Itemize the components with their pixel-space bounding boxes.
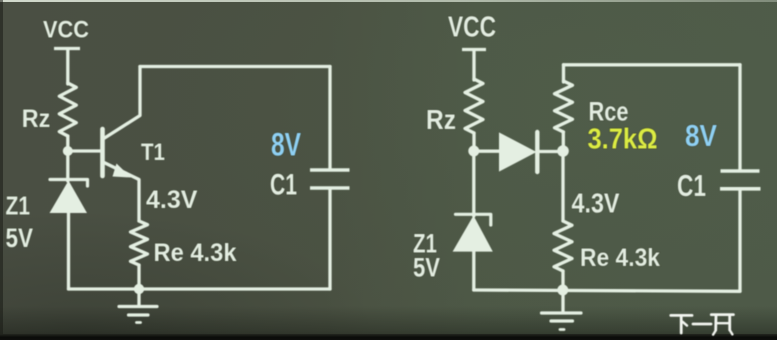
svg-text:Z1: Z1 <box>6 191 31 221</box>
wire top rail (right) <box>564 63 741 66</box>
wire right rail down to C1 (right) <box>738 65 741 170</box>
svg-text:C1: C1 <box>270 169 297 202</box>
caption char 页 <box>711 315 733 335</box>
wire node A to zener Z1 (right) <box>472 151 475 216</box>
svg-text:Rz: Rz <box>426 104 456 135</box>
resistor Rce (right) <box>555 81 573 132</box>
svg-text:8V: 8V <box>685 118 717 153</box>
svg-text:4.3V: 4.3V <box>146 186 198 214</box>
wire right rail down to C1 (left) <box>328 67 331 170</box>
wire bottom rail (right) <box>474 290 740 291</box>
ground bar 2 (left) <box>129 313 149 316</box>
capacitor C1 top plate (left) <box>310 168 350 172</box>
bottom black letterbox bar <box>0 334 777 340</box>
node C junction dot (right) <box>557 145 569 157</box>
wire VCC to Rz (left) <box>66 50 69 84</box>
svg-text:5V: 5V <box>413 252 440 282</box>
wire diode cathode to node C (right) <box>539 150 563 153</box>
diode D1 triangle (right) <box>499 132 537 171</box>
node B junction dot (left) <box>63 146 73 156</box>
wire Re to ground node (right) <box>561 271 564 290</box>
wire Rz to node A (right) <box>472 133 475 151</box>
svg-text:VCC: VCC <box>448 12 496 44</box>
ground bar 1 (left) <box>119 305 157 308</box>
wire Rz to base node (left) <box>66 136 69 151</box>
svg-text:Rz: Rz <box>22 105 51 133</box>
transistor T1 emitter lead <box>103 162 139 221</box>
caption 下一页 (next page) drawn strokes <box>671 315 734 335</box>
wire C1 to bottom rail (left) <box>328 189 331 289</box>
caption char 下 <box>671 315 692 333</box>
node A junction dot (right) <box>468 146 479 157</box>
left dark video edge <box>0 0 3 340</box>
wire Rce to node C (right) <box>562 132 565 146</box>
svg-text:Re 4.3k: Re 4.3k <box>154 239 237 267</box>
wire node C to Re (right) <box>561 151 564 221</box>
wire Re to ground node (left) <box>137 265 140 289</box>
ground stub (right) <box>561 290 564 311</box>
capacitor C1 top plate (right) <box>721 169 760 173</box>
capacitor C1 bottom plate (left) <box>310 186 350 190</box>
resistor Re (left) <box>131 221 148 265</box>
ground bar 1 (right) <box>542 311 582 314</box>
transistor T1 collector lead <box>103 67 140 140</box>
wire base (left) <box>68 149 101 152</box>
wire node A to diode anode (right) <box>474 150 500 153</box>
svg-text:C1: C1 <box>677 169 706 203</box>
ground bar 2 (right) <box>551 319 573 322</box>
resistor Rz (right) <box>465 79 483 133</box>
svg-text:5V: 5V <box>6 223 34 253</box>
zener diode Z1 triangle (left) <box>50 181 88 214</box>
svg-text:3.7kΩ: 3.7kΩ <box>588 124 658 156</box>
capacitor C1 bottom plate (right) <box>720 187 761 191</box>
zener diode Z1 cathode bar (right) <box>456 214 491 225</box>
zener diode Z1 triangle (right) <box>453 216 493 252</box>
wire VCC to Rz (right) <box>472 51 475 80</box>
svg-text:Rce: Rce <box>589 96 629 126</box>
VCC supply terminal bar (right) <box>462 48 486 51</box>
wire bottom rail (left) <box>69 287 331 290</box>
svg-text:VCC: VCC <box>43 17 89 44</box>
diode D1 cathode bar (right) <box>535 132 539 172</box>
zener diode Z1 cathode bar (left) <box>50 180 88 187</box>
wire Z1 anode to bottom rail (left) <box>67 213 70 289</box>
transistor T1 base bar <box>100 129 105 176</box>
node G ground junction dot (right) <box>557 285 568 296</box>
wire top rail (left) <box>140 65 330 68</box>
svg-text:T1: T1 <box>141 139 165 166</box>
wire node B to zener Z1 (left) <box>66 151 69 181</box>
caption char 一 <box>693 323 711 326</box>
svg-text:Re 4.3k: Re 4.3k <box>580 244 660 272</box>
ground bar 3 (left) <box>137 321 141 324</box>
svg-text:4.3V: 4.3V <box>572 188 621 219</box>
top bright video edge line <box>0 0 777 2</box>
VCC supply terminal bar (left) <box>54 47 80 50</box>
ground stub (left) <box>137 289 140 305</box>
svg-text:8V: 8V <box>271 127 301 163</box>
resistor Re (right) <box>554 221 572 271</box>
node E ground junction dot (left) <box>134 284 144 294</box>
wire top rail to Rce (right) <box>562 65 565 82</box>
wire Z1 anode to bottom rail (right) <box>472 252 475 290</box>
wire C1 to bottom rail (right) <box>738 189 741 291</box>
transistor T1 emitter arrow <box>113 164 132 178</box>
resistor Rz (left) <box>59 83 76 136</box>
ground bar 3 (right) <box>560 328 564 331</box>
